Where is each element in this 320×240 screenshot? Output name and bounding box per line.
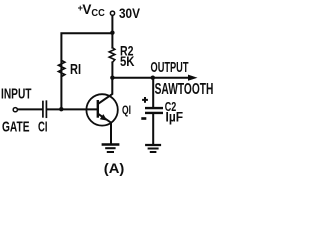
wire C1 to base xyxy=(47,108,97,110)
resistor R2 xyxy=(109,48,115,63)
label C2 polarity minus xyxy=(141,117,146,120)
svg-text:CC: CC xyxy=(91,7,105,19)
node junction C2 tap xyxy=(151,76,155,80)
wire output with arrow xyxy=(112,77,188,79)
node junction top (R2 top) xyxy=(110,31,114,35)
wire supply circle to top junction xyxy=(111,16,113,33)
svg-text:V: V xyxy=(82,2,91,17)
capacitor C1 xyxy=(42,102,44,117)
transistor Q1 circle xyxy=(86,94,117,125)
terminal 30V supply circle xyxy=(110,11,114,15)
svg-text:CI: CI xyxy=(38,118,48,135)
node junction collector/output xyxy=(110,76,114,80)
wire C2 to ground xyxy=(152,114,154,144)
svg-text:IµF: IµF xyxy=(166,109,184,124)
svg-text:INPUT: INPUT xyxy=(1,85,32,102)
wire input to C1 xyxy=(18,108,42,110)
svg-text:RI: RI xyxy=(70,61,81,78)
node junction R1/base xyxy=(59,107,63,111)
resistor R1 xyxy=(58,60,65,76)
capacitor C2 xyxy=(146,107,162,109)
ground (emitter) xyxy=(103,143,118,145)
wire R2 branch xyxy=(111,33,113,48)
svg-text:GATE: GATE xyxy=(2,118,30,135)
transistor Q1 collector lead xyxy=(99,78,113,104)
svg-text:QI: QI xyxy=(122,105,131,117)
input terminal circle xyxy=(13,108,17,112)
output arrowhead xyxy=(188,75,198,81)
transistor Q1 emitter lead xyxy=(99,114,111,144)
transistor Q1 base bar xyxy=(97,101,99,116)
wire top horizontal xyxy=(61,33,112,109)
transistor Q1 emitter arrowhead xyxy=(100,114,108,121)
ground (C2) xyxy=(146,144,160,146)
svg-text:30V: 30V xyxy=(119,5,141,21)
svg-text:(A): (A) xyxy=(104,160,125,176)
wire C2 drop xyxy=(152,78,154,107)
svg-text:OUTPUT: OUTPUT xyxy=(151,60,189,76)
svg-text:SAWTOOTH: SAWTOOTH xyxy=(155,81,214,98)
label C2 polarity plus xyxy=(142,97,148,103)
svg-text:5K: 5K xyxy=(120,53,135,69)
